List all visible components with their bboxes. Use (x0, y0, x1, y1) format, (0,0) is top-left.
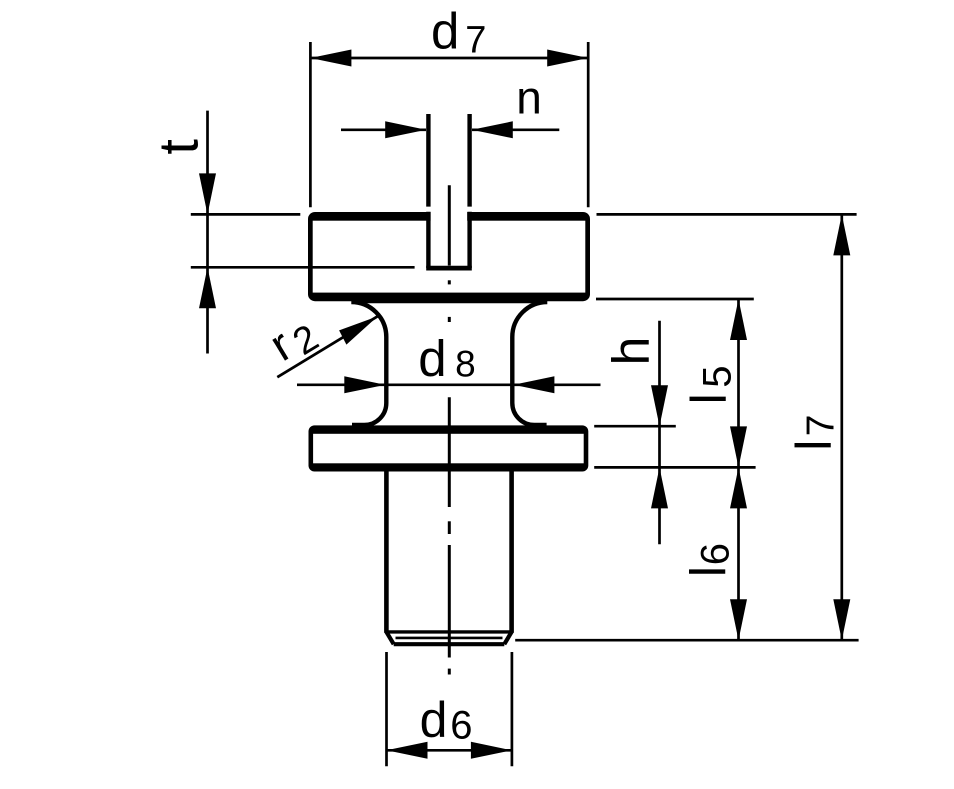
d7 arrowhead right (547, 50, 588, 67)
t arrowhead upper (199, 173, 216, 214)
dimension d6 (387, 652, 512, 766)
t arrowhead lower (199, 267, 216, 308)
svg-text:t: t (146, 139, 209, 155)
d6 arrowhead right (471, 742, 512, 759)
h extension line flange top (594, 425, 676, 428)
n extension line right (467, 114, 471, 207)
dimension n (341, 72, 559, 207)
svg-text:d: d (431, 3, 459, 60)
n arrowhead right (472, 121, 513, 138)
n extension line left (426, 114, 430, 207)
l7 dimension line (840, 214, 843, 640)
neck left profile (fillet r2) (351, 302, 386, 425)
d7 dimension line (310, 57, 588, 60)
neck top tangent edge (352, 300, 548, 303)
d7 arrowhead left (310, 50, 351, 67)
l5 dimension line (737, 299, 740, 467)
dimension l5 (681, 299, 747, 467)
chamfer right corner (504, 632, 511, 644)
d6 dimension line (387, 749, 512, 752)
flange (collar) outline (309, 425, 589, 471)
n dimension line right part (472, 128, 559, 131)
svg-text:l: l (681, 566, 737, 577)
svg-text:7: 7 (800, 415, 843, 437)
dimension d8 (297, 330, 601, 393)
slot right edge (467, 212, 471, 268)
l7 extension line head top (597, 213, 857, 216)
d6 extension line left (385, 652, 388, 766)
d7 extension line right (587, 42, 590, 207)
svg-text:d: d (418, 330, 446, 387)
h arrowhead upper (651, 385, 668, 426)
svg-text:h: h (603, 337, 661, 366)
t extension line head top (191, 213, 300, 216)
centerline (448, 185, 451, 674)
svg-text:l: l (681, 393, 737, 404)
dimension r2 leader (260, 316, 377, 377)
t dimension line (206, 111, 209, 354)
neck right profile (512, 302, 547, 425)
d8 arrowhead left (344, 376, 385, 393)
l6 arrowhead top (730, 467, 747, 508)
l6 dimension line (737, 467, 740, 640)
n dimension line left part (341, 128, 426, 131)
slot left edge (426, 212, 430, 268)
slot bottom (426, 266, 472, 271)
l5 arrowhead bottom (730, 426, 747, 467)
l6 arrowhead bottom (730, 599, 747, 640)
svg-text:6: 6 (450, 704, 472, 748)
dimension t (146, 111, 414, 354)
shaft bottom edge (394, 642, 505, 646)
chamfer left corner (386, 632, 393, 644)
threaded shaft left edge (384, 468, 389, 633)
svg-text:5: 5 (695, 365, 739, 387)
extension line flange bottom (h / l5 / l6) (594, 466, 755, 469)
h dimension line (658, 321, 661, 545)
svg-text:n: n (516, 72, 542, 124)
d7 extension line left (309, 42, 312, 207)
d6 extension line right (511, 652, 514, 766)
svg-text:l: l (786, 440, 842, 451)
t extension line slot bottom (191, 266, 415, 269)
r2 arrowhead (339, 316, 378, 344)
thread root line (396, 637, 503, 640)
l7 arrowhead top (833, 214, 850, 255)
svg-text:7: 7 (465, 19, 486, 61)
dimension l6 (681, 467, 747, 640)
svg-text:d: d (420, 692, 448, 748)
extension line head bottom (l5 top) (596, 298, 754, 301)
extension line shaft bottom (l6 / l7) (515, 639, 858, 642)
svg-text:6: 6 (693, 543, 737, 565)
screw head outline (308, 208, 590, 301)
d8 arrowhead right (513, 376, 554, 393)
r2 leader line (277, 316, 378, 377)
n arrowhead left (385, 121, 426, 138)
d6 arrowhead left (387, 742, 428, 759)
chamfer edge line (386, 630, 511, 633)
h arrowhead lower (651, 467, 668, 508)
dimension h (594, 321, 676, 545)
svg-text:8: 8 (455, 343, 476, 384)
dimension l7 (597, 214, 857, 640)
l7 arrowhead bottom (833, 599, 850, 640)
l5 arrowhead top (730, 299, 747, 340)
d8 dimension line (297, 383, 601, 386)
dimension d7 (310, 3, 588, 208)
threaded shaft right edge (509, 468, 514, 633)
